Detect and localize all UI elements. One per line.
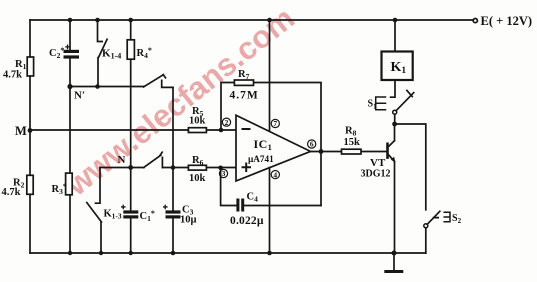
svg-text:6: 6 [310, 140, 314, 149]
node N R4 [128, 165, 133, 170]
bracket of S2 [444, 212, 450, 222]
capacitor C2 [64, 45, 80, 59]
svg-text:10µ: 10µ [180, 215, 197, 226]
wire C2-R3 column [69, 20, 71, 253]
svg-text:N′: N′ [74, 90, 85, 102]
resistor R3 [66, 173, 73, 195]
wire M row [30, 129, 236, 131]
wire top rail [30, 19, 473, 21]
svg-text:S2: S2 [452, 213, 462, 225]
wire R4-C1 column [130, 20, 132, 253]
svg-text:M: M [15, 124, 27, 138]
node output [319, 149, 324, 154]
node top C2 [68, 18, 73, 23]
switch S2 [424, 211, 440, 253]
op-amp plus sign [243, 164, 251, 172]
resistor R6 [188, 165, 206, 170]
transistor VT collector [388, 124, 395, 147]
wire left vertical rail [29, 20, 31, 253]
capacitor C3 [163, 205, 181, 219]
svg-text:R7: R7 [238, 69, 250, 81]
svg-text:4.7k: 4.7k [3, 70, 22, 81]
node collector [392, 122, 397, 127]
op-amp U1 triangle [236, 115, 311, 181]
node N C3 [171, 165, 176, 170]
transistor VT emitter with arrow [388, 154, 396, 253]
capacitor C1 [121, 205, 138, 219]
node M feedback [219, 128, 224, 133]
switch K1-3 [87, 168, 102, 254]
svg-text:3DG12: 3DG12 [361, 169, 391, 180]
wire output row [311, 151, 387, 153]
svg-text:R4*: R4* [137, 46, 152, 60]
wire C4 row [221, 168, 321, 206]
node top pin7 [267, 18, 272, 23]
node M left [28, 128, 33, 133]
svg-text:µA741: µA741 [248, 154, 274, 164]
svg-text:K1-3: K1-3 [104, 209, 122, 221]
resistor R7 [234, 80, 253, 85]
node bottom C3 [171, 251, 176, 256]
node top R4 [128, 18, 133, 23]
pin 2 circle [222, 118, 230, 127]
node bottom R3 [68, 251, 72, 255]
svg-text:R8: R8 [345, 126, 357, 138]
wire bottom rail [30, 252, 426, 254]
wire N-prime row [70, 86, 144, 88]
relay K1 box [382, 52, 413, 81]
ground [386, 253, 402, 272]
switch S1 [393, 90, 414, 123]
svg-text:15k: 15k [344, 137, 361, 148]
switch on N row [144, 152, 163, 167]
resistor R2 [27, 175, 33, 194]
svg-text:10k: 10k [189, 116, 206, 127]
wire N row [100, 167, 236, 169]
svg-text:0.022µ: 0.022µ [230, 215, 264, 227]
op-amp minus sign [243, 128, 250, 130]
svg-text:N: N [118, 154, 126, 166]
terminal E circle [473, 19, 477, 23]
svg-text:C1*: C1* [140, 209, 155, 223]
node bottom K1-3 [99, 251, 103, 255]
svg-text:C2*: C2* [49, 46, 64, 60]
wire collector node to S2 branch [395, 124, 426, 210]
wire feedback loop R7 [221, 83, 321, 206]
svg-text:R3*: R3* [52, 182, 67, 196]
node N C4 tap [218, 166, 223, 171]
svg-text:4.7k: 4.7k [2, 187, 21, 198]
switch on N-prime row [144, 75, 174, 88]
resistor R4 [127, 40, 134, 59]
svg-text:VT: VT [370, 157, 386, 169]
pin 6 circle [308, 140, 316, 149]
pin 7 circle and wire [270, 20, 280, 131]
transistor VT base bar [386, 144, 389, 158]
pin 3 circle [219, 169, 227, 178]
svg-text:E( + 12V): E( + 12V) [481, 14, 533, 28]
node bottom C1 [129, 251, 133, 255]
svg-text:4: 4 [273, 170, 277, 179]
switch K1-4 [98, 20, 108, 87]
node bottom pin4 [267, 251, 272, 256]
svg-text:www.elecfans.com: www.elecfans.com [58, 0, 301, 203]
resistor R8 [342, 149, 362, 154]
resistor R5 [188, 128, 206, 133]
capacitor C4 [236, 199, 244, 212]
svg-text:2: 2 [225, 118, 229, 127]
node N-prime K1-4 [95, 84, 100, 89]
svg-text:K1-4: K1-4 [102, 48, 121, 61]
node top K1 [393, 18, 398, 23]
svg-text:C4: C4 [247, 192, 259, 204]
svg-text:3: 3 [222, 169, 226, 178]
bracket of S1 [376, 97, 386, 110]
resistor R1 [27, 57, 33, 76]
svg-text:4.7M: 4.7M [230, 90, 259, 102]
node bottom ground [392, 251, 397, 256]
wire C3 column [172, 87, 174, 253]
pin 4 circle and wire [270, 168, 280, 253]
node top K1-4 [95, 18, 100, 23]
wire K1 column [391, 20, 395, 97]
svg-text:7: 7 [273, 119, 277, 128]
svg-text:10k: 10k [189, 173, 206, 184]
svg-text:R6: R6 [192, 155, 204, 167]
node N-prime [67, 84, 72, 89]
